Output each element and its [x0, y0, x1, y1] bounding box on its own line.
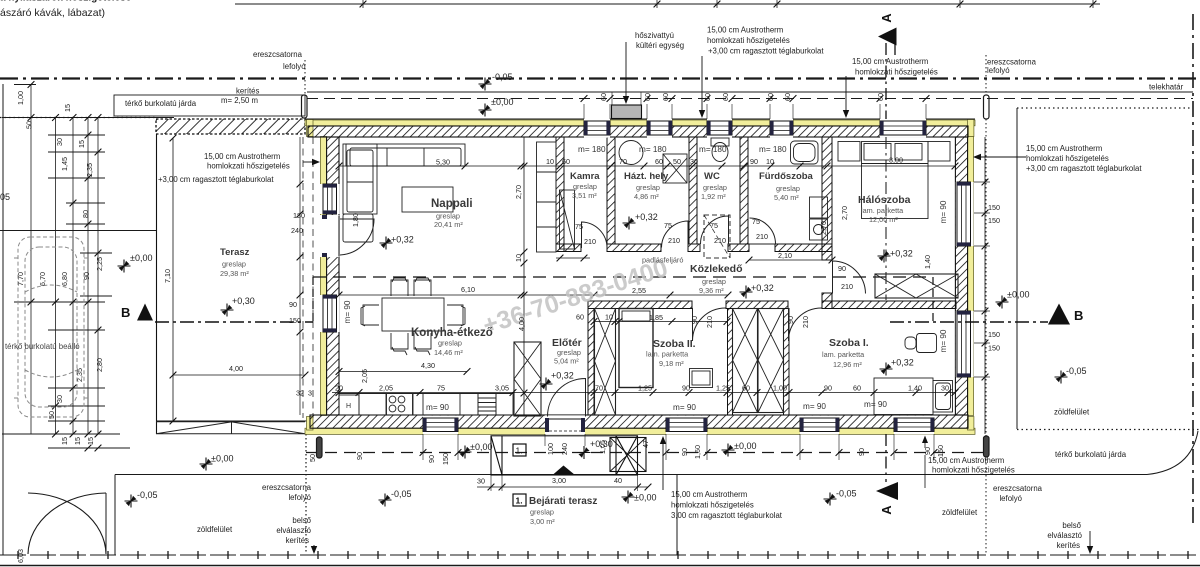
svg-text:7,10: 7,10	[163, 269, 172, 283]
svg-text:1,00: 1,00	[773, 384, 787, 393]
svg-text:6,10: 6,10	[461, 285, 475, 294]
svg-text:1,45: 1,45	[60, 157, 69, 171]
svg-text:m= 90: m= 90	[426, 403, 449, 412]
svg-text:60: 60	[721, 93, 730, 101]
svg-text:2,35: 2,35	[75, 368, 84, 382]
svg-text:75: 75	[710, 221, 718, 230]
svg-text:homlokzati hőszigetelés: homlokzati hőszigetelés	[855, 68, 938, 77]
svg-text:lefolyó: lefolyó	[288, 493, 311, 502]
svg-text:A: A	[879, 505, 894, 515]
svg-text:60: 60	[703, 93, 712, 101]
svg-text:30: 30	[477, 477, 485, 486]
svg-text:15,00 cm Austrotherm: 15,00 cm Austrotherm	[707, 26, 783, 35]
svg-text:lefolyó: lefolyó	[283, 62, 306, 71]
svg-text:2,10: 2,10	[778, 251, 792, 260]
svg-text:5,40 m²: 5,40 m²	[774, 193, 799, 202]
svg-text:20,41 m²: 20,41 m²	[434, 220, 463, 229]
svg-text:kerítés: kerítés	[286, 536, 309, 545]
svg-text:30: 30	[941, 384, 949, 393]
svg-text:homlokzati hőszigetelés: homlokzati hőszigetelés	[707, 36, 790, 45]
svg-text:lefolyó: lefolyó	[999, 494, 1022, 503]
svg-text:90: 90	[824, 384, 832, 393]
svg-text:10: 10	[514, 254, 523, 262]
svg-text:m= 90: m= 90	[803, 402, 826, 411]
svg-text:kültéri egység: kültéri egység	[636, 41, 684, 50]
svg-text:homlokzati hőszigetelés: homlokzati hőszigetelés	[207, 162, 290, 171]
svg-text:60: 60	[853, 384, 861, 393]
svg-text:±0,00: ±0,00	[1007, 290, 1029, 300]
svg-text:lam. parketta: lam. parketta	[822, 350, 865, 359]
svg-text:m= 90: m= 90	[939, 200, 948, 223]
svg-text:m= 90: m= 90	[864, 400, 887, 409]
svg-text:hőszivattyú: hőszivattyú	[635, 31, 674, 40]
svg-text:1,05: 1,05	[598, 440, 607, 454]
svg-text:80: 80	[81, 210, 90, 218]
svg-text:90: 90	[923, 447, 932, 455]
svg-text:50: 50	[673, 157, 681, 166]
svg-text:3,51 m²: 3,51 m²	[572, 191, 597, 200]
svg-text:12,00 m²: 12,00 m²	[869, 215, 898, 224]
svg-text:+0,32: +0,32	[635, 212, 658, 222]
svg-text:60: 60	[766, 93, 775, 101]
svg-text:210: 210	[668, 236, 680, 245]
svg-text:15: 15	[73, 437, 82, 445]
svg-text:lam. parketta: lam. parketta	[861, 206, 904, 215]
svg-text:9,18 m²: 9,18 m²	[659, 359, 684, 368]
svg-text:Szoba I.: Szoba I.	[829, 337, 869, 349]
svg-text:Konyha-étkező: Konyha-étkező	[411, 327, 493, 339]
svg-text:3,05: 3,05	[495, 384, 509, 393]
svg-text:lefolyó: lefolyó	[987, 66, 1010, 75]
svg-text:ereszcsatorna: ereszcsatorna	[993, 484, 1043, 493]
svg-text:belső: belső	[1062, 521, 1081, 530]
svg-text:4,86 m²: 4,86 m²	[634, 192, 659, 201]
svg-text:2,35: 2,35	[85, 163, 94, 177]
svg-text:30: 30	[55, 395, 64, 403]
svg-text:150: 150	[988, 330, 1000, 339]
svg-text:3,00: 3,00	[552, 476, 566, 485]
svg-text:Kamra: Kamra	[570, 171, 600, 182]
svg-text:7,70: 7,70	[16, 272, 25, 286]
svg-text:3,00 m²: 3,00 m²	[530, 517, 555, 526]
svg-text:zöldfelület: zöldfelület	[942, 508, 978, 517]
svg-text:75: 75	[752, 217, 760, 226]
svg-text:2,55: 2,55	[632, 286, 646, 295]
svg-text:100: 100	[546, 443, 555, 455]
svg-text:60: 60	[742, 384, 750, 393]
svg-text:Hálószoba: Hálószoba	[858, 194, 911, 206]
svg-text:10: 10	[546, 157, 554, 166]
svg-text:-0,05: -0,05	[137, 490, 158, 500]
svg-text:47: 47	[641, 440, 650, 448]
svg-text:4,00: 4,00	[229, 364, 243, 373]
svg-text:greslap: greslap	[573, 182, 597, 191]
svg-text:40: 40	[614, 476, 622, 485]
svg-text:150: 150	[441, 453, 450, 465]
svg-text:-0,05: -0,05	[492, 72, 513, 82]
svg-text:20: 20	[335, 384, 343, 393]
svg-text:+3,00 cm ragasztott téglaburko: +3,00 cm ragasztott téglaburkolat	[708, 47, 824, 56]
svg-text:a nyílászárók hőszigetelése: a nyílászárók hőszigetelése	[0, 0, 132, 4]
svg-text:m= 180: m= 180	[639, 145, 667, 154]
svg-text:10: 10	[766, 157, 774, 166]
svg-text:ereszcsatorna: ereszcsatorna	[262, 483, 312, 492]
svg-text:1,00: 1,00	[16, 91, 25, 105]
svg-text:90: 90	[355, 452, 364, 460]
svg-text:60: 60	[655, 157, 663, 166]
svg-text:210: 210	[841, 282, 853, 291]
svg-text:lam. parketta: lam. parketta	[646, 350, 689, 359]
svg-text:homlokzati hőszigetelés: homlokzati hőszigetelés	[932, 466, 1015, 475]
svg-text:A: A	[879, 13, 894, 23]
svg-text:70: 70	[595, 384, 603, 393]
svg-text:B: B	[1074, 308, 1083, 323]
svg-text:6,70: 6,70	[38, 272, 47, 286]
svg-text:greslap: greslap	[222, 260, 246, 269]
svg-text:10: 10	[605, 313, 613, 322]
svg-text:+0,30: +0,30	[232, 296, 255, 306]
svg-text:2,25: 2,25	[95, 257, 104, 271]
svg-text:3,00 cm ragasztott téglaburkol: 3,00 cm ragasztott téglaburkolat	[671, 511, 783, 520]
svg-text:+0,32: +0,32	[391, 235, 414, 245]
svg-text:m= 90: m= 90	[343, 300, 352, 323]
svg-text:210: 210	[584, 237, 596, 246]
svg-text:150: 150	[289, 316, 301, 325]
svg-text:+0,32: +0,32	[890, 249, 913, 259]
svg-text:-0,05: -0,05	[391, 489, 412, 499]
svg-text:1,85: 1,85	[649, 313, 663, 322]
svg-text:75: 75	[575, 222, 583, 231]
svg-text:210: 210	[756, 232, 768, 241]
svg-text:homlokzati hőszigetelés: homlokzati hőszigetelés	[671, 501, 754, 510]
svg-text:kerítés: kerítés	[1057, 541, 1080, 550]
svg-text:greslap: greslap	[703, 183, 727, 192]
svg-text:+0,32: +0,32	[551, 371, 574, 381]
svg-text:5,30: 5,30	[436, 158, 450, 167]
svg-text:elválasztó: elválasztó	[1047, 531, 1082, 540]
svg-text:180: 180	[293, 211, 305, 220]
svg-text:15,00 cm Austrotherm: 15,00 cm Austrotherm	[204, 152, 280, 161]
svg-text:75: 75	[664, 221, 672, 230]
svg-text:Közlekedő: Közlekedő	[690, 263, 743, 275]
svg-text:±0,00: ±0,00	[734, 441, 756, 451]
svg-text:60: 60	[643, 93, 652, 101]
svg-text:zöldfelület: zöldfelület	[1054, 408, 1090, 417]
svg-text:90: 90	[82, 272, 91, 280]
svg-text:15,00 cm Austrotherm: 15,00 cm Austrotherm	[1026, 144, 1102, 153]
svg-text:Terasz: Terasz	[220, 247, 250, 258]
svg-text:5,04 m²: 5,04 m²	[554, 357, 579, 366]
svg-text:±0,00: ±0,00	[491, 97, 513, 107]
svg-text:greslap: greslap	[438, 339, 462, 348]
svg-text:1.: 1.	[516, 496, 523, 506]
svg-text:15,00 cm Austrotherm: 15,00 cm Austrotherm	[671, 490, 747, 499]
svg-text:60: 60	[562, 157, 570, 166]
svg-text:240: 240	[560, 443, 569, 455]
svg-text:Fürdőszoba: Fürdőszoba	[759, 171, 814, 182]
svg-text:60: 60	[599, 93, 608, 101]
svg-text:térkő burkolatú járda: térkő burkolatú járda	[125, 99, 197, 108]
svg-text:90: 90	[838, 264, 846, 273]
svg-text:1,92 m²: 1,92 m²	[701, 192, 726, 201]
svg-text:+0,32: +0,32	[751, 283, 774, 293]
svg-text:zöldfelület: zöldfelület	[197, 525, 233, 534]
svg-text:+3,00 cm ragasztott téglaburko: +3,00 cm ragasztott téglaburkolat	[1026, 164, 1142, 173]
svg-text:6,03: 6,03	[16, 549, 25, 563]
svg-text:50: 50	[47, 411, 56, 419]
svg-text:+3,00 cm ragasztott téglaburko: +3,00 cm ragasztott téglaburkolat	[158, 175, 274, 184]
svg-text:210: 210	[801, 316, 810, 328]
svg-text:60: 60	[783, 93, 792, 101]
svg-text:70: 70	[619, 157, 627, 166]
svg-text:±0,00: ±0,00	[470, 442, 492, 452]
svg-text:Bejárati terasz: Bejárati terasz	[529, 496, 597, 507]
svg-text:2,05: 2,05	[379, 384, 393, 393]
svg-text:ereszcsatorna: ereszcsatorna	[253, 50, 303, 59]
svg-text:32: 32	[296, 389, 304, 398]
svg-text:3: 3	[308, 389, 312, 398]
svg-text:210: 210	[714, 236, 726, 245]
svg-text:m= 90: m= 90	[939, 329, 948, 352]
svg-text:2,70: 2,70	[840, 206, 849, 220]
svg-text:1,40: 1,40	[908, 384, 922, 393]
svg-text:90: 90	[682, 384, 690, 393]
svg-text:WC: WC	[704, 171, 720, 182]
svg-text:1.: 1.	[516, 446, 523, 456]
svg-text:1,25: 1,25	[638, 384, 652, 393]
svg-text:greslap: greslap	[702, 277, 726, 286]
svg-text:belső: belső	[292, 516, 311, 525]
svg-text:150: 150	[988, 203, 1000, 212]
svg-text:240: 240	[291, 226, 303, 235]
svg-text:kerítés: kerítés	[236, 87, 259, 96]
svg-text:90: 90	[427, 455, 436, 463]
svg-text:1,40: 1,40	[923, 255, 932, 269]
svg-text:padlásfeljáró: padlásfeljáró	[642, 256, 683, 265]
svg-text:9,36 m²: 9,36 m²	[699, 286, 724, 295]
svg-text:15: 15	[60, 437, 69, 445]
svg-text:homlokzati hőszigetelés: homlokzati hőszigetelés	[1026, 154, 1109, 163]
svg-text:60: 60	[876, 93, 885, 101]
svg-text:m= 180: m= 180	[759, 145, 787, 154]
svg-text:-0,05: -0,05	[836, 489, 857, 499]
svg-text:-0,05: -0,05	[1066, 366, 1087, 376]
svg-text:2,70: 2,70	[819, 221, 828, 235]
svg-text:15: 15	[86, 437, 95, 445]
svg-text:15,00 cm Austrotherm: 15,00 cm Austrotherm	[852, 57, 928, 66]
svg-text:2,05: 2,05	[360, 369, 369, 383]
svg-text:térkő burkolatú járda: térkő burkolatú járda	[1055, 450, 1127, 459]
svg-text:05: 05	[0, 192, 10, 202]
svg-text:4,30: 4,30	[421, 361, 435, 370]
svg-text:30: 30	[690, 157, 698, 166]
svg-text:90: 90	[289, 300, 297, 309]
svg-text:1,60: 1,60	[693, 445, 702, 459]
svg-text:4,00: 4,00	[517, 317, 526, 331]
svg-text:Nappali: Nappali	[431, 198, 473, 210]
svg-text:90: 90	[786, 316, 795, 324]
svg-text:m= 180: m= 180	[578, 145, 606, 154]
svg-text:50: 50	[25, 121, 34, 129]
svg-text:H: H	[346, 403, 351, 410]
svg-text:2,80: 2,80	[95, 358, 104, 372]
svg-text:60: 60	[576, 313, 584, 322]
svg-text:60: 60	[661, 93, 670, 101]
svg-text:ászáró kávák, lábazat): ászáró kávák, lábazat)	[0, 7, 105, 19]
svg-text:210: 210	[705, 316, 714, 328]
svg-text:±0,00: ±0,00	[211, 454, 233, 464]
svg-text:greslap: greslap	[776, 184, 800, 193]
svg-text:m= 180: m= 180	[699, 145, 727, 154]
svg-text:29,38 m²: 29,38 m²	[220, 269, 249, 278]
svg-text:30: 30	[55, 138, 64, 146]
svg-text:15: 15	[77, 140, 86, 148]
svg-text:greslap: greslap	[530, 508, 554, 517]
svg-text:1,25: 1,25	[716, 384, 730, 393]
svg-text:m= 2,50 m: m= 2,50 m	[221, 96, 258, 105]
svg-text:15: 15	[63, 104, 72, 112]
svg-text:2,70: 2,70	[514, 185, 523, 199]
svg-text:Szoba II.: Szoba II.	[653, 338, 696, 350]
svg-text:150: 150	[988, 216, 1000, 225]
svg-text:150: 150	[936, 445, 945, 457]
svg-text:+0,32: +0,32	[891, 358, 914, 368]
svg-text:50: 50	[308, 454, 317, 462]
svg-text:B: B	[121, 305, 130, 320]
svg-text:±0,00: ±0,00	[130, 253, 152, 263]
svg-text:90: 90	[857, 448, 866, 456]
svg-text:±0,00: ±0,00	[634, 493, 656, 503]
svg-text:150: 150	[988, 344, 1000, 353]
svg-text:14,46 m²: 14,46 m²	[434, 348, 463, 357]
svg-text:90: 90	[680, 448, 689, 456]
svg-text:térkő burkolatú beálló: térkő burkolatú beálló	[5, 342, 80, 351]
svg-text:m= 90: m= 90	[673, 403, 696, 412]
svg-text:elválasztó: elválasztó	[276, 526, 311, 535]
svg-text:12,96 m²: 12,96 m²	[833, 360, 862, 369]
svg-text:90: 90	[750, 157, 758, 166]
svg-text:75: 75	[437, 384, 445, 393]
svg-text:1,80: 1,80	[351, 213, 360, 227]
svg-text:6,80: 6,80	[60, 272, 69, 286]
svg-text:90: 90	[690, 316, 699, 324]
svg-text:telekhatár: telekhatár	[1149, 83, 1184, 92]
svg-text:greslap: greslap	[636, 183, 660, 192]
svg-text:3,00: 3,00	[889, 156, 903, 165]
svg-text:Házt. hely: Házt. hely	[624, 171, 669, 182]
